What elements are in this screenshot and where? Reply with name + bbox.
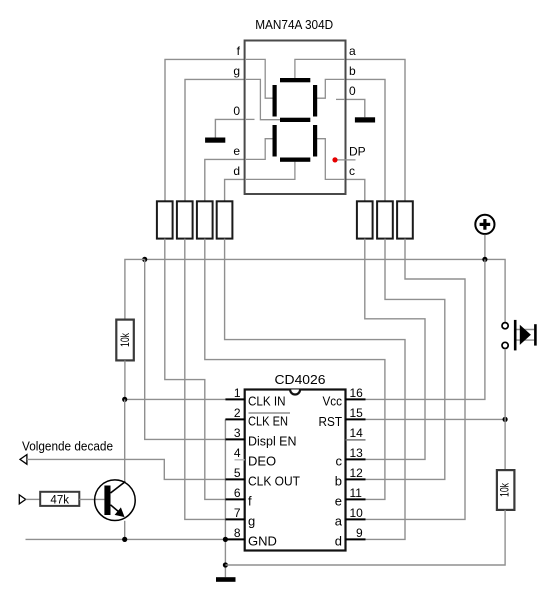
svg-text:Vcc: Vcc (323, 394, 343, 409)
display internal wire pin b (317, 79, 345, 98)
svg-text:b: b (349, 64, 356, 78)
IC U1 CD4026 body (245, 390, 346, 551)
display internal wire pin f (245, 59, 273, 98)
svg-text:14: 14 (350, 426, 364, 440)
svg-text:Volgende decade: Volgende decade (22, 438, 113, 453)
node emitter ground rail (122, 537, 127, 542)
node ground to right ground run (223, 562, 228, 567)
right common terminal bar (355, 117, 375, 122)
wire display pin a to resistor R7 (346, 59, 406, 201)
output port arrow Volgende decade (20, 455, 27, 465)
svg-text:2: 2 (234, 406, 241, 420)
pin 15 stub (346, 418, 366, 420)
resistor 10k left pullup (116, 320, 134, 361)
wire R7 to IC pin 10 (segment a) (366, 239, 466, 520)
svg-text:6: 6 (234, 486, 241, 500)
wire battery stem (484, 235, 486, 260)
svg-text:DP: DP (349, 144, 366, 158)
wire display pin e to resistor R3 (205, 159, 245, 201)
wire collector to node (124, 399, 126, 481)
svg-text:10k: 10k (118, 332, 132, 347)
svg-text:CLK IN: CLK IN (248, 394, 286, 409)
pin 8 stub (225, 538, 244, 540)
wire CLK OUT to Volgende decade (27, 459, 226, 479)
svg-text:5: 5 (234, 466, 241, 480)
node ground rail IC pin 8 (223, 537, 228, 542)
svg-text:e: e (233, 144, 240, 158)
pin 13 stub (346, 458, 366, 460)
pin label CLK EN with overline (248, 413, 290, 429)
svg-text:CD4026: CD4026 (275, 373, 326, 387)
svg-text:d: d (233, 164, 240, 178)
wire display pin f to resistor R1 (165, 59, 245, 201)
left common terminal bar (205, 138, 225, 143)
svg-text:a: a (349, 44, 356, 58)
display internal wire DP stub (335, 159, 356, 161)
wire button bottom to RST node and 10k (504, 349, 506, 470)
push button S1 (502, 320, 537, 351)
resistor R1 (segment f) (157, 201, 173, 238)
svg-text:c: c (336, 454, 343, 469)
wire display pin g to resistor R2 (185, 79, 245, 201)
display internal wire pin a (295, 59, 345, 78)
segment d (280, 158, 310, 162)
svg-text:g: g (233, 64, 240, 78)
wire display pin b to resistor R6 (346, 79, 386, 201)
pin 16 stub (346, 398, 366, 400)
wire display right common 0 to bar (346, 99, 365, 117)
svg-text:9: 9 (356, 526, 363, 540)
wire left 10k pullup top to bus (125, 259, 145, 319)
svg-text:10: 10 (350, 506, 364, 520)
svg-text:DEO: DEO (248, 454, 276, 469)
wire input arrow to 47k (26, 498, 41, 500)
svg-text:GND: GND (248, 534, 277, 549)
resistor R5 (segment c) (357, 201, 373, 238)
7-segment display U2 MAN74A 304D body (245, 41, 346, 195)
display internal stub left 0 (245, 118, 255, 120)
wire R4 to IC pin 9 (segment d) (225, 239, 405, 540)
resistor R4 (segment d) (217, 201, 233, 238)
wire display left common 0 to bar (215, 119, 244, 137)
svg-text:0: 0 (233, 104, 240, 118)
pin 6 stub (225, 498, 244, 500)
transistor Q1 NPN (95, 480, 136, 521)
wire emitter to ground rail (124, 521, 126, 540)
node bus left end (142, 257, 147, 262)
display internal wire pin g (245, 79, 280, 119)
svg-text:13: 13 (350, 446, 364, 460)
svg-text:f: f (248, 494, 252, 509)
pin 7 stub (225, 518, 244, 520)
display internal wire pin e (245, 139, 273, 160)
svg-text:g: g (248, 514, 255, 529)
svg-text:11: 11 (350, 486, 363, 500)
wire V+ to IC pin 3 Displ EN (145, 259, 226, 439)
wire IC pin 15 RST to button node (366, 418, 506, 420)
wire left 10k bottom to node (124, 360, 126, 399)
svg-text:7: 7 (234, 506, 241, 520)
battery positive terminal B1 (475, 215, 494, 234)
segment c (313, 125, 317, 157)
resistor R6 (segment b) (377, 201, 393, 238)
display internal wire pin c (317, 139, 345, 180)
svg-text:Displ EN: Displ EN (248, 434, 297, 449)
svg-text:CLK OUT: CLK OUT (248, 474, 300, 489)
node 10k / pin1 / collector (122, 397, 127, 402)
svg-text:RST: RST (319, 414, 343, 429)
segment b (313, 85, 317, 117)
pin 11 stub (346, 498, 366, 500)
pin 3 stub (225, 438, 244, 440)
ground symbol (216, 577, 236, 582)
svg-text:e: e (335, 494, 342, 509)
wire IC pin 2 CLK EN to ground rail (224, 419, 226, 577)
svg-text:15: 15 (350, 406, 364, 420)
ground rail wire (26, 538, 226, 540)
svg-text:8: 8 (234, 526, 241, 540)
svg-text:a: a (335, 514, 343, 529)
wire 47k to transistor base (79, 498, 104, 500)
input port arrow to 47k (19, 495, 25, 504)
wire right 10k bottom to ground run (225, 510, 505, 565)
pin 9 stub (346, 538, 366, 540)
svg-text:3: 3 (234, 426, 241, 440)
wire R5 to IC pin 13 (segment c) (365, 239, 425, 460)
svg-text:d: d (335, 534, 342, 549)
svg-text:c: c (349, 164, 355, 178)
wire R6 to IC pin 12 (segment b) (366, 239, 445, 480)
svg-text:16: 16 (350, 386, 364, 400)
pin 2 stub (225, 418, 244, 420)
display internal stub right 0 (336, 98, 345, 100)
resistor R2 (segment g) (177, 201, 193, 238)
svg-text:10k: 10k (498, 482, 512, 497)
wire display pin d to resistor R4 (225, 179, 245, 201)
node RST button 10k (503, 417, 508, 422)
display internal wire pin d (245, 162, 295, 180)
svg-text:0: 0 (349, 84, 356, 98)
svg-text:12: 12 (350, 466, 364, 480)
wire node to IC pin 1 CLK IN (125, 398, 226, 400)
pin 10 stub (346, 518, 366, 520)
wire R2 to IC pin 7 (segment g) (185, 239, 226, 520)
svg-text:CLK EN: CLK EN (248, 414, 288, 429)
pin 5 stub (225, 478, 244, 480)
pin 12 stub (346, 478, 366, 480)
pin 14 stub unconnected (346, 439, 366, 441)
pin 1 stub (225, 398, 244, 400)
segment a (280, 78, 310, 82)
resistor R3 (segment e) (197, 201, 213, 238)
segment e (273, 125, 277, 157)
svg-text:47k: 47k (50, 494, 69, 506)
resistor 10k right pulldown (497, 470, 515, 510)
segment g (280, 118, 310, 122)
resistor R7 (segment a) (397, 201, 413, 238)
decimal point DP red dot (332, 157, 337, 162)
wire IC pin 16 Vcc to bus (366, 259, 485, 399)
wire R1 to IC pin 6 (segment f) (165, 239, 226, 500)
pin 4 stub unconnected (235, 459, 245, 461)
svg-text:4: 4 (234, 446, 241, 460)
resistor 47k base (40, 492, 79, 507)
svg-text:MAN74A 304D: MAN74A 304D (255, 18, 333, 32)
svg-text:b: b (335, 474, 342, 489)
wire display pin c to resistor R5 (346, 179, 365, 201)
node battery to bus (482, 257, 487, 262)
svg-text:1: 1 (234, 386, 241, 400)
supply bus wire V+ (145, 259, 505, 322)
segment f (273, 85, 277, 117)
wire R3 to IC pin 11 (segment e) (205, 239, 385, 500)
